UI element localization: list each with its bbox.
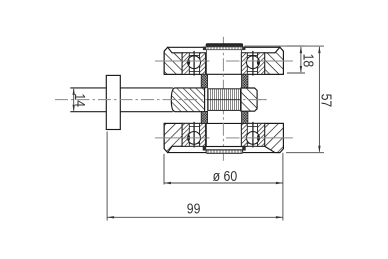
wheel rim bottom block <box>164 123 283 152</box>
dimension 57 <box>245 46 325 153</box>
horizontal centerline <box>55 99 267 101</box>
svg-text:14: 14 <box>72 93 88 107</box>
bushing bottom end strip <box>206 150 242 153</box>
bearing row centerline bottom <box>155 137 293 139</box>
right hub (nut, sectioned) <box>241 88 257 111</box>
threaded engagement (knurl block) <box>208 89 241 111</box>
svg-text:99: 99 <box>187 200 201 216</box>
knurled bushing segment bottom-right <box>242 111 248 123</box>
dimension 14 <box>73 88 75 112</box>
dimension 18 <box>287 46 305 73</box>
knurled bushing segment bottom-left <box>201 111 207 123</box>
bearing bottom-left <box>182 122 205 147</box>
bearing row centerline top <box>155 60 293 62</box>
rim top-right wall hatch <box>265 47 284 74</box>
rim bottom-left wall hatch <box>164 123 182 152</box>
knurled bushing segment top-right <box>242 74 248 88</box>
bearing bottom-right <box>241 122 264 147</box>
knurled bushing segment top-left <box>201 74 207 88</box>
dimension ø60 <box>164 153 283 221</box>
wheel rim top block <box>164 47 283 74</box>
rim bottom-right wall hatch <box>265 123 284 152</box>
bushing top knurled band <box>203 47 245 50</box>
dimension 99 <box>107 132 283 221</box>
shaft <box>70 88 173 112</box>
svg-text:57: 57 <box>318 94 334 108</box>
bushing bottom band <box>203 147 245 150</box>
vertical centerline <box>222 37 224 150</box>
left hub (shaft head, sectioned) <box>171 88 204 112</box>
bearing top-right <box>241 51 264 76</box>
bearing top-left <box>182 51 205 76</box>
rim top-left wall hatch <box>164 47 182 74</box>
svg-text:18: 18 <box>300 54 316 68</box>
bushing top end strip <box>206 44 242 47</box>
flange <box>106 75 120 129</box>
bushing bore wall verticals <box>206 50 241 147</box>
svg-text:ø 60: ø 60 <box>213 168 238 184</box>
